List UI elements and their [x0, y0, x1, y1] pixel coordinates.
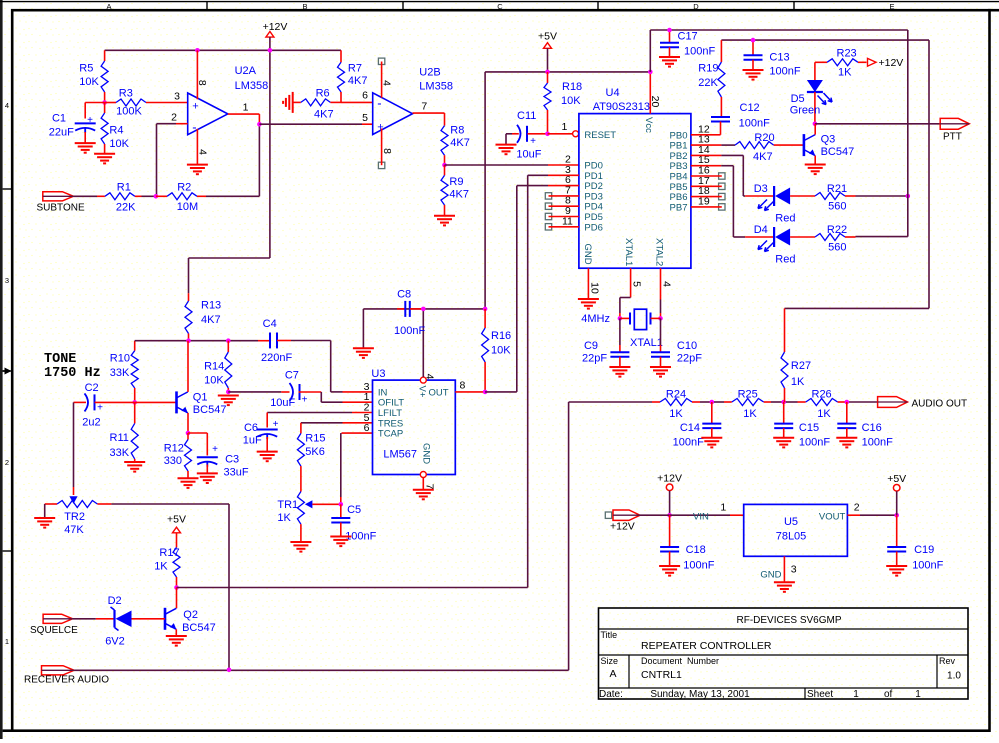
wire U2A pin4: [197, 129, 209, 165]
svg-text:560: 560: [828, 201, 846, 213]
wire Q2 collector: [176, 588, 178, 609]
power +12V arrow: [868, 57, 904, 69]
svg-text:78L05: 78L05: [776, 531, 807, 543]
ground U5: [774, 582, 795, 592]
capacitor C10: [651, 318, 702, 367]
svg-text:1: 1: [853, 689, 859, 700]
svg-text:4: 4: [5, 101, 9, 110]
text U4 pin numbers: [562, 123, 710, 227]
resistor R25: [724, 389, 771, 421]
wire U2B pin6: [341, 90, 373, 103]
wire PD1: [528, 175, 579, 587]
ic U4 pin names: [582, 117, 688, 266]
svg-text:LM567: LM567: [383, 449, 417, 461]
ground C5: [330, 537, 351, 547]
svg-text:R7: R7: [348, 63, 362, 75]
wire R17 to PD1: [177, 587, 528, 589]
svg-text:33K: 33K: [110, 367, 130, 379]
svg-text:+: +: [192, 100, 198, 112]
svg-text:Red: Red: [775, 254, 795, 266]
ground U4: [578, 299, 599, 309]
svg-text:22pF: 22pF: [582, 353, 607, 365]
ground U3: [413, 490, 434, 500]
resistor R8: [441, 113, 470, 165]
wire VIN: [640, 514, 744, 516]
svg-text:1: 1: [720, 502, 726, 514]
wire PB2 to D3: [691, 155, 745, 196]
svg-text:VOUT: VOUT: [819, 512, 846, 523]
svg-text:2: 2: [171, 112, 177, 124]
resistor R1: [97, 181, 142, 213]
node junction RESET: [545, 132, 550, 137]
node junction emitter Q1: [186, 431, 191, 436]
svg-text:C15: C15: [799, 422, 819, 434]
wire LFILT to C6: [267, 413, 372, 428]
power +5V symbol: [538, 31, 557, 72]
wire C11 gnd: [505, 134, 507, 145]
svg-text:C12: C12: [740, 102, 760, 114]
outer border left strip: [0, 0, 3, 739]
capacitor C4: [261, 318, 331, 364]
diode D3 red LED: [745, 183, 795, 225]
node junction XTAL left: [618, 316, 623, 321]
ground R11: [124, 462, 145, 472]
svg-text:7: 7: [424, 484, 436, 490]
node junction R8/R9: [442, 163, 447, 168]
svg-text:1K: 1K: [277, 512, 291, 524]
svg-text:5: 5: [362, 112, 368, 124]
svg-text:Sunday, May 13, 2001: Sunday, May 13, 2001: [650, 689, 750, 700]
node junction C14: [710, 400, 715, 405]
wire U2A pin2: [157, 124, 188, 197]
svg-text:Size: Size: [601, 656, 619, 666]
ground U2A pin4: [187, 165, 208, 175]
svg-text:CNTRL1: CNTRL1: [641, 669, 682, 681]
svg-text:AT90S2313: AT90S2313: [593, 101, 650, 113]
svg-text:C5: C5: [347, 504, 361, 516]
led D5 arrows: [818, 93, 833, 105]
svg-text:A: A: [609, 668, 616, 680]
svg-text:2: 2: [854, 502, 860, 514]
wire C7 to OFILT: [321, 392, 372, 402]
svg-text:C3: C3: [225, 454, 239, 466]
wire +5V rail: [485, 72, 650, 309]
svg-text:+: +: [97, 403, 103, 414]
svg-text:8: 8: [381, 148, 393, 154]
svg-text:1K: 1K: [791, 376, 805, 388]
svg-text:RF-DEVICES SV6GMP: RF-DEVICES SV6GMP: [736, 615, 841, 626]
port SQUELCE: [30, 614, 78, 636]
node junction R14 bottom: [226, 390, 231, 395]
text VOUT: [819, 502, 860, 523]
op-amp U2A: [188, 65, 269, 135]
svg-text:10uF: 10uF: [516, 149, 541, 161]
ground C16: [836, 438, 857, 448]
svg-text:+12V: +12V: [879, 57, 904, 69]
port SUBTONE: [37, 192, 85, 214]
svg-text:C2: C2: [85, 382, 99, 394]
svg-text:100nF: 100nF: [673, 437, 704, 449]
node junction VOUT: [894, 513, 899, 518]
wire C2 to TR2: [73, 402, 75, 495]
wire PB0: [691, 134, 721, 136]
wire C8 net: [395, 309, 486, 377]
resistor R13: [185, 293, 221, 340]
pin circle U3 GND: [420, 472, 435, 490]
wire C8 left gnd: [363, 309, 394, 348]
resistor R2: [156, 181, 206, 213]
potentiometer TR2: [45, 496, 112, 536]
resistor R6: [293, 87, 341, 120]
capacitor C3: [188, 433, 249, 479]
svg-text:1: 1: [915, 689, 921, 700]
led D3 arrows: [758, 200, 774, 211]
svg-text:AUDIO OUT: AUDIO OUT: [912, 399, 968, 410]
svg-text:R2: R2: [177, 181, 191, 193]
resistor R10: [110, 351, 138, 403]
wire Q1 emitter: [187, 413, 189, 433]
text TONE: [44, 352, 101, 381]
svg-text:4: 4: [661, 281, 673, 287]
svg-text:+: +: [212, 444, 218, 455]
left ruler arrow mark: [3, 368, 12, 375]
svg-text:4MHz: 4MHz: [581, 313, 610, 325]
svg-text:C6: C6: [244, 422, 258, 434]
svg-text:BC547: BC547: [193, 404, 227, 416]
svg-text:of: of: [884, 689, 893, 700]
svg-text:10K: 10K: [204, 375, 224, 387]
wire +12V rail top: [105, 49, 341, 51]
capacitor C8: [394, 289, 425, 338]
wire U2B pin5: [259, 112, 372, 124]
ground C13: [743, 70, 764, 80]
svg-text:10K: 10K: [491, 345, 511, 357]
node junction R16 top: [483, 307, 488, 312]
wire squelce: [73, 618, 96, 620]
resistor R20: [691, 132, 804, 163]
svg-text:1: 1: [562, 121, 568, 133]
capacitor C6: [243, 422, 278, 452]
svg-text:10K: 10K: [79, 76, 99, 88]
capacitor C19: [887, 515, 943, 571]
resistor R26: [798, 389, 846, 421]
node junction VIN: [667, 513, 672, 518]
svg-text:3: 3: [791, 564, 797, 576]
svg-text:U2B: U2B: [419, 67, 440, 79]
svg-text:BC547: BC547: [182, 622, 216, 634]
capacitor C16: [837, 402, 893, 449]
node junction +5V R18: [545, 70, 550, 75]
svg-text:R23: R23: [837, 48, 857, 60]
svg-text:2: 2: [5, 458, 9, 467]
node junction +12V top: [195, 48, 272, 53]
wire C4 to IN: [331, 341, 373, 392]
node junction PTT: [813, 122, 818, 127]
svg-text:C1: C1: [52, 113, 66, 125]
svg-text:-: -: [377, 96, 381, 111]
svg-text:+: +: [530, 136, 536, 147]
svg-text:C7: C7: [285, 370, 299, 382]
svg-text:22K: 22K: [116, 202, 136, 214]
wire XTAL2 pin4: [661, 268, 673, 318]
ground C15: [773, 438, 794, 448]
svg-text:U2A: U2A: [235, 65, 257, 77]
svg-text:R14: R14: [204, 361, 224, 373]
svg-text:R4: R4: [109, 125, 123, 137]
ground C10: [650, 367, 671, 377]
svg-text:1K: 1K: [838, 67, 852, 79]
svg-text:Q2: Q2: [183, 609, 198, 621]
svg-text:+12V: +12V: [657, 472, 682, 484]
diode D5 green LED: [790, 62, 823, 124]
svg-text:6: 6: [364, 422, 370, 434]
svg-text:SQUELCE: SQUELCE: [30, 625, 78, 636]
ground C17: [659, 57, 680, 67]
svg-text:XTAL1: XTAL1: [623, 238, 634, 266]
svg-text:A: A: [106, 2, 111, 11]
wire +5V right vertical: [856, 30, 908, 237]
unconnected pin square U2B4: [378, 58, 384, 64]
pin circle U3 V+: [420, 374, 435, 384]
capacitor C11: [506, 110, 548, 161]
wire R19 rail: [721, 40, 929, 308]
resistor R4: [101, 103, 130, 154]
svg-text:RECEIVER AUDIO: RECEIVER AUDIO: [24, 675, 109, 686]
text C3 plus: [212, 444, 218, 455]
wire +12V drop: [669, 491, 671, 516]
svg-text:+12V: +12V: [610, 521, 635, 533]
capacitor C7: [228, 370, 321, 410]
unconnected pin square U2B8: [378, 162, 384, 168]
svg-text:BC547: BC547: [821, 146, 855, 158]
svg-text:R20: R20: [754, 132, 774, 144]
svg-text:U5: U5: [784, 516, 798, 528]
left ruler ticks: [3, 189, 13, 551]
resistor R24: [652, 389, 700, 421]
svg-text:R25: R25: [738, 389, 758, 401]
svg-text:C13: C13: [769, 52, 789, 64]
svg-text:+5V: +5V: [167, 514, 186, 526]
svg-text:TONE: TONE: [44, 352, 76, 367]
svg-text:R1: R1: [117, 181, 131, 193]
ic U3 body: [371, 368, 455, 475]
svg-text:+5V: +5V: [538, 31, 557, 43]
svg-text:5K6: 5K6: [305, 446, 325, 458]
ground C3: [197, 473, 218, 483]
wire OUT to PD2: [485, 391, 517, 393]
resistor R15: [297, 423, 325, 492]
svg-text:4K7: 4K7: [449, 189, 469, 201]
potentiometer TR1: [277, 492, 340, 543]
svg-text:1K: 1K: [817, 408, 831, 420]
ground C9: [609, 367, 630, 377]
svg-text:4K7: 4K7: [348, 75, 368, 87]
svg-text:+: +: [377, 122, 383, 134]
svg-text:+: +: [273, 419, 279, 430]
svg-text:Rev: Rev: [939, 656, 956, 666]
capacitor C15: [774, 402, 830, 449]
svg-text:D2: D2: [108, 595, 122, 607]
svg-text:R17: R17: [159, 547, 179, 559]
svg-text:10K: 10K: [561, 95, 581, 107]
svg-text:Title: Title: [601, 630, 618, 640]
wire R2 to out node: [206, 195, 259, 197]
wire receiver audio: [74, 669, 568, 671]
svg-text:100nF: 100nF: [394, 325, 425, 337]
port PTT: [940, 118, 969, 142]
svg-text:1750 Hz: 1750 Hz: [44, 366, 101, 381]
capacitor C14: [673, 402, 722, 449]
svg-text:R15: R15: [305, 433, 325, 445]
svg-text:1K: 1K: [154, 561, 168, 573]
wire RESET: [548, 121, 573, 134]
ground C6: [257, 452, 278, 462]
wire PD2: [517, 186, 579, 392]
svg-text:C11: C11: [517, 110, 536, 122]
node junction R14 top: [226, 338, 231, 343]
text VIN: [693, 502, 726, 523]
wire PB3 to D4: [691, 166, 745, 237]
pin circle RESET: [573, 131, 579, 137]
svg-text:Vcc: Vcc: [643, 117, 654, 133]
svg-text:C8: C8: [397, 289, 411, 301]
left ruler numbers: [5, 101, 9, 646]
wire U4 GND pin10: [588, 268, 600, 299]
node junction C13: [751, 38, 756, 43]
svg-text:4K7: 4K7: [314, 109, 334, 121]
text C1 plus: [87, 115, 93, 126]
transistor Q1: [177, 391, 227, 416]
ground C11: [496, 145, 517, 155]
power +12V circle: [657, 472, 682, 490]
wire U5 gnd pin3: [760, 556, 796, 582]
svg-text:3: 3: [174, 91, 180, 103]
diode D4 red LED: [745, 224, 795, 266]
svg-text:R21: R21: [827, 183, 847, 195]
svg-text:R5: R5: [79, 63, 93, 75]
wire ladder: [569, 401, 878, 403]
svg-text:2u2: 2u2: [82, 417, 100, 429]
unconnected pins PB4-PB7: [691, 173, 725, 210]
capacitor C18: [660, 515, 715, 571]
svg-text:R8: R8: [450, 125, 464, 137]
resistor R21: [790, 183, 855, 213]
resistor R16: [482, 309, 512, 392]
svg-text:XTAL1: XTAL1: [630, 337, 663, 349]
top ruler ticks: [207, 2, 794, 10]
node junction R5/R3/R4/C1: [102, 100, 107, 105]
svg-text:-: -: [192, 120, 196, 135]
svg-text:E: E: [889, 2, 894, 11]
svg-text:GND: GND: [760, 570, 781, 581]
wire TCAP down: [341, 433, 373, 504]
svg-text:D5: D5: [791, 93, 805, 105]
node junction TR1 wiper: [339, 502, 344, 507]
title block text: [599, 615, 961, 700]
node junction OUT: [483, 390, 488, 395]
wire U4 Vcc pin20: [649, 72, 661, 114]
svg-text:R16: R16: [491, 330, 511, 342]
svg-text:XTAL2: XTAL2: [654, 238, 665, 266]
resistor R5: [79, 50, 108, 102]
power +5V symbol R17: [167, 514, 186, 548]
svg-text:C18: C18: [686, 544, 706, 556]
svg-text:4: 4: [197, 149, 209, 155]
outer border top line: [0, 1, 999, 3]
svg-text:6: 6: [362, 90, 368, 102]
ic U3 pin names: [378, 386, 449, 465]
ground R14: [218, 396, 239, 406]
svg-text:330: 330: [164, 455, 182, 467]
ground R12: [178, 478, 199, 488]
svg-text:4K7: 4K7: [450, 137, 470, 149]
resistor R9: [441, 165, 469, 216]
svg-text:R6: R6: [316, 87, 330, 99]
svg-text:OUT: OUT: [428, 388, 448, 399]
wire U2A output: [228, 114, 260, 196]
resistor R22: [790, 224, 855, 254]
svg-text:R3: R3: [119, 87, 133, 99]
resistor R11: [110, 402, 139, 462]
text U2A pin1: [243, 102, 249, 114]
svg-text:D4: D4: [754, 224, 768, 236]
wire VOUT: [847, 514, 896, 516]
svg-text:C10: C10: [677, 340, 697, 352]
svg-text:R24: R24: [666, 389, 686, 401]
wire receiver audio riser: [568, 402, 570, 670]
ground C14: [701, 438, 722, 448]
node junction R17: [174, 585, 179, 590]
text C6 plus: [273, 419, 279, 430]
port RECEIVER AUDIO: [24, 666, 109, 686]
op-amp U2B: [373, 67, 453, 135]
text C11 plus: [530, 136, 536, 147]
svg-text:4: 4: [381, 80, 393, 86]
wire C17 rail: [650, 30, 908, 72]
capacitor C13: [744, 40, 801, 77]
svg-text:100nF: 100nF: [799, 437, 830, 449]
wire Q2 emitter: [175, 629, 177, 636]
svg-text:Q1: Q1: [193, 392, 208, 404]
svg-text:100nF: 100nF: [862, 437, 893, 449]
svg-text:1K: 1K: [743, 408, 757, 420]
power +12V symbol: [263, 21, 288, 50]
svg-text:1uF: 1uF: [243, 435, 262, 447]
svg-text:C14: C14: [680, 422, 700, 434]
svg-text:Document Number: Document Number: [641, 656, 719, 666]
svg-text:33K: 33K: [110, 447, 130, 459]
svg-text:PB7: PB7: [670, 202, 688, 213]
capacitor C2: [74, 382, 135, 429]
wire base Q1: [135, 401, 177, 403]
svg-text:TCAP: TCAP: [378, 429, 403, 440]
capacitor C5: [331, 504, 376, 543]
wire Q3 emitter: [814, 156, 816, 165]
svg-text:R22: R22: [827, 224, 847, 236]
svg-text:8: 8: [196, 80, 208, 86]
wire PD0 net: [445, 164, 579, 166]
transistor Q2: [165, 608, 216, 634]
unconnected pins PD3-PD6: [545, 193, 579, 230]
svg-text:GND: GND: [421, 443, 432, 464]
svg-text:R12: R12: [164, 443, 184, 455]
top ruler letters: [106, 2, 894, 11]
node junction C8/V+: [421, 307, 426, 312]
ground R9: [434, 216, 455, 226]
svg-text:20: 20: [649, 96, 661, 108]
svg-text:1: 1: [5, 637, 9, 646]
node junction R13: [186, 338, 191, 343]
